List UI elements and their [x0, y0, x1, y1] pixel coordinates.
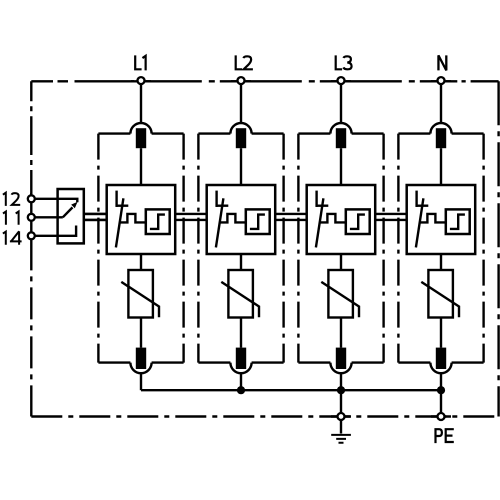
wire L2 terminal to module 2 top contact — [240, 84, 242, 123]
spark gap counter-electrode tick (module 2) — [216, 204, 229, 206]
module 3 enclosure (dash-dot box) — [298, 134, 383, 363]
trigger bus from signalling contact — [84, 214, 107, 220]
terminal L3 — [336, 55, 352, 84]
wire top contact to spark gap box (module 2) — [240, 148, 242, 185]
plug-in contact arc bottom (module 2) — [230, 363, 251, 374]
step-function symbol (module 2) — [250, 215, 265, 229]
bottom contact blade (module 3) — [336, 348, 346, 369]
wire top contact to spark gap box (module 3) — [340, 148, 342, 185]
varistor (module 1) — [121, 270, 159, 318]
top contact blade (module 3) — [336, 128, 346, 148]
wire PE bus to PE terminal — [440, 390, 442, 413]
wire varistor to bottom contact (module 3) — [340, 318, 342, 348]
disconnector blade (module 4) — [416, 198, 424, 247]
terminal L2 — [236, 55, 253, 84]
remote signalling contact box — [58, 189, 84, 243]
varistor (module 2) — [221, 270, 259, 318]
wire L1 terminal to module 1 top contact — [140, 84, 142, 123]
wire ground terminal to earth symbol — [340, 420, 342, 433]
trigger connection square-wave (module 4) — [420, 214, 446, 223]
module 1 enclosure (dash-dot box) — [98, 134, 183, 363]
module 2 enclosure (dash-dot box) — [198, 134, 283, 363]
step-function symbol (module 3) — [350, 215, 365, 229]
spark gap counter-electrode tick (module 1) — [116, 204, 129, 206]
trigger bus upper wire — [84, 213, 407, 215]
wire terminal 12 to NC contact — [35, 199, 77, 202]
spark gap electrode (module 1) — [115, 191, 117, 207]
trigger circuit box (module 1) — [146, 209, 170, 234]
step-function symbol (module 1) — [150, 215, 165, 229]
junction node (L3 module to PE bus) — [337, 386, 345, 394]
terminal N — [438, 55, 447, 84]
trigger connection square-wave (module 3) — [320, 214, 346, 223]
wire varistor to bottom contact (module 1) — [140, 318, 142, 348]
spark gap unit box (module 3) — [307, 185, 376, 254]
PE bus wire — [141, 389, 441, 391]
device enclosure border (dash-dot) — [31, 81, 498, 416]
trigger circuit box (module 3) — [346, 209, 370, 234]
changeover contact blade with arrow — [63, 202, 78, 218]
top contact blade (module 2) — [236, 128, 246, 148]
plug-in contact arc top (module 3) — [330, 123, 351, 134]
wire module 3 bottom to PE bus — [340, 373, 342, 390]
wire spark gap box to varistor (module 3) — [340, 254, 342, 270]
wire top contact to spark gap box (module 1) — [140, 148, 142, 185]
terminal 11 — [3, 212, 35, 225]
wire spark gap box to varistor (module 1) — [140, 254, 142, 270]
wire L3 terminal to module 3 top contact — [340, 84, 342, 123]
bottom contact blade (module 1) — [136, 348, 146, 369]
wire module 1 bottom to PE bus — [140, 373, 142, 390]
module 4 enclosure (dash-dot box) — [398, 134, 483, 363]
trigger bus lower wire — [84, 219, 407, 221]
wire terminal 11 to changeover pivot — [35, 216, 63, 218]
spark gap electrode (module 3) — [315, 191, 317, 207]
disconnector blade (module 2) — [216, 198, 224, 247]
plug-in contact arc top (module 1) — [130, 123, 151, 134]
step-function symbol (module 4) — [450, 215, 465, 229]
varistor (module 4) — [421, 270, 459, 318]
junction node (N module to PE bus) — [437, 386, 445, 394]
spark gap electrode (module 4) — [415, 191, 417, 207]
trigger connection square-wave (module 1) — [120, 214, 146, 223]
spark gap unit box (module 4) — [407, 185, 476, 254]
terminal PE — [436, 413, 454, 443]
wire top contact to spark gap box (module 4) — [440, 148, 442, 185]
trigger circuit box (module 4) — [446, 209, 470, 234]
wire varistor to bottom contact (module 2) — [240, 318, 242, 348]
bottom contact blade (module 2) — [236, 348, 246, 369]
disconnector blade (module 3) — [316, 198, 324, 247]
terminal 14 — [3, 231, 35, 245]
plug-in contact arc bottom (module 3) — [330, 363, 351, 374]
spark gap electrode (module 2) — [215, 191, 217, 207]
terminal L1 — [135, 55, 145, 84]
junction node (L2 module to PE bus) — [237, 386, 245, 394]
varistor (module 3) — [321, 270, 359, 318]
spark gap counter-electrode tick (module 4) — [416, 204, 429, 206]
wire PE bus to ground terminal — [340, 390, 342, 413]
terminal 12 — [3, 193, 35, 206]
wire N terminal to module 4 top contact — [440, 84, 442, 123]
spark gap unit box (module 2) — [207, 185, 276, 254]
trigger connection square-wave (module 2) — [220, 214, 246, 223]
wire varistor to bottom contact (module 4) — [440, 318, 442, 348]
spark gap unit box (module 1) — [107, 185, 176, 254]
plug-in contact arc top (module 4) — [430, 123, 451, 134]
plug-in contact arc top (module 2) — [230, 123, 251, 134]
wire (border solid segments at terminals) — [31, 81, 451, 416]
top contact blade (module 1) — [136, 128, 146, 148]
wire module 2 bottom to PE bus — [240, 373, 242, 390]
wire terminal 14 to NO contact — [35, 226, 76, 236]
disconnector blade (module 1) — [116, 198, 124, 247]
wire module 4 bottom to PE bus — [440, 373, 442, 390]
plug-in contact arc bottom (module 1) — [130, 363, 151, 374]
top contact blade (module 4) — [436, 128, 446, 148]
trigger circuit box (module 2) — [246, 209, 270, 234]
spark gap counter-electrode tick (module 3) — [316, 204, 329, 206]
bottom contact blade (module 4) — [436, 348, 446, 369]
ground terminal circle — [338, 413, 345, 420]
plug-in contact arc bottom (module 4) — [430, 363, 451, 374]
ground (earth symbol) — [331, 435, 351, 443]
wire spark gap box to varistor (module 4) — [440, 254, 442, 270]
wire spark gap box to varistor (module 2) — [240, 254, 242, 270]
